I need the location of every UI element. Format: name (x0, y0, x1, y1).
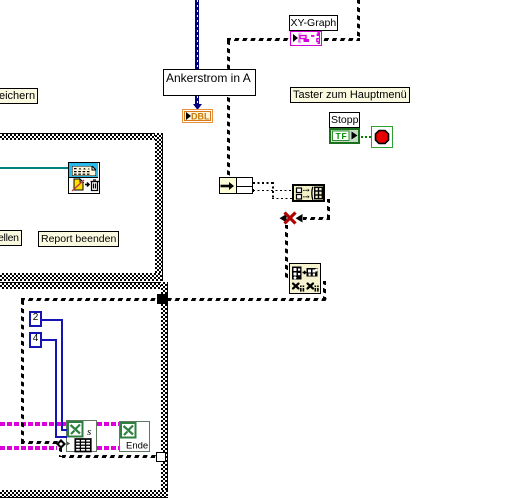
terminal TF (boolean) (329, 128, 360, 144)
label Report beenden (38, 231, 119, 247)
broken wire: dashed vertical down from X (285, 225, 288, 281)
broken wire: dashed from matrix icon right down (327, 199, 330, 218)
label Taster zum Hauptmenü (290, 87, 410, 103)
while loop 2 bottom border (0, 490, 168, 498)
broken wire junction: arrows + red X (278, 211, 304, 226)
case structure top dashed border (227, 38, 360, 41)
terminal DBL (orange) (182, 109, 213, 123)
label ellen (clipped) (0, 230, 22, 246)
wire: pink report wire upper left (0, 422, 66, 426)
wire: dotted wire node out1 (253, 182, 273, 184)
dashed from diamond down (59, 448, 62, 457)
subVI Excel set cell value (table) (66, 420, 97, 452)
label eichern (clipped Speichern) (0, 88, 38, 104)
wire: pink report wire lower mid (97, 446, 119, 450)
wire: navy array wire below label (195, 96, 199, 106)
label Stopp (329, 112, 360, 128)
wire: pink report wire upper mid (97, 422, 119, 426)
while loop 1 right border (155, 133, 163, 281)
while loop 1 bottom border (0, 273, 162, 281)
subVI Dispose Report (68, 162, 100, 194)
case structure top-right vertical dashed border (357, 0, 360, 41)
broken wire diamond junction (56, 439, 66, 449)
while loop 1 top border (0, 133, 162, 140)
while loop 2 right border (161, 282, 168, 497)
wire: blue from constant 2 (42, 319, 63, 321)
wire: dotted wire node out2 (253, 190, 293, 192)
broken wire: dashed horiz to red X (303, 217, 330, 220)
node Convert Matrix to Array (289, 263, 321, 294)
subVI Excel Ende (119, 421, 150, 452)
svg-text:Ende: Ende (126, 441, 148, 452)
svg-text:DBL: DBL (191, 112, 210, 120)
broken wire: dashed from convert icon corner down (323, 281, 326, 298)
svg-text:TF: TF (336, 131, 348, 141)
terminal XY-Graph (cluster) (290, 31, 322, 46)
constant 4 (29, 332, 42, 348)
wire arrowhead into DBL terminal (193, 104, 202, 110)
while loop 2 top border (0, 282, 168, 289)
wire: navy array wire from top (195, 0, 199, 69)
svg-text:s: s (87, 426, 91, 438)
wire: teal report wire (0, 167, 68, 169)
tunnel (white) on loop 2 border (156, 452, 166, 462)
label Ankerstrom in A (163, 69, 256, 96)
label XY-Graph (289, 15, 338, 31)
case structure 2 bottom jog dashed (21, 441, 58, 444)
constant 2 (29, 311, 42, 327)
case structure 2 bottom dashed border (62, 455, 156, 458)
case structure left vertical dashed border (227, 41, 230, 177)
node Index Array (219, 177, 253, 194)
broken wire: long dashed horizontal to tunnel and loop (21, 298, 327, 301)
wire: blue from constant 4 (42, 339, 57, 341)
node matrix constant (292, 184, 325, 202)
wire: green dotted boolean wire (361, 136, 372, 138)
tunnel (black) on loop 2 border (157, 294, 167, 304)
stop button constant (371, 126, 393, 148)
wire: dotted vertical jog (272, 182, 274, 199)
case structure 2 left dashed border (21, 301, 24, 443)
wire: dotted wire into matrix icon (272, 198, 293, 200)
wire: pink report wire lower left (0, 446, 57, 450)
